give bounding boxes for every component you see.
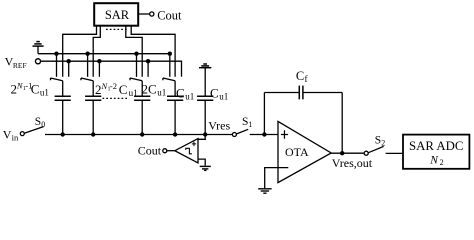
svg-text:SAR: SAR	[105, 8, 130, 22]
node bottom rail branch4	[173, 132, 177, 136]
wire pole branch3 to cap	[141, 81, 143, 96]
node Vref rail / branch1	[67, 59, 71, 63]
label Cu1 (branch5)	[210, 85, 228, 101]
svg-text:u1: u1	[157, 88, 166, 98]
node Vref rail / branch2	[97, 59, 101, 63]
wire ground throw branch2	[87, 54, 89, 77]
wire ground rail	[38, 53, 170, 55]
wire Cf left vertical	[263, 93, 265, 135]
svg-text:V: V	[3, 128, 12, 142]
wire cap branch1 to bottom rail	[62, 101, 64, 135]
node ground rail / branch1	[54, 52, 58, 56]
wire SAR control to switch 1	[63, 26, 97, 77]
capacitor 2^(N1-1)Cu1	[55, 96, 71, 100]
wire ground throw branch4	[169, 54, 171, 77]
wire pole branch4 to cap	[174, 81, 176, 96]
wire ground throw branch3	[136, 54, 138, 77]
switch branch4	[163, 78, 175, 81]
svg-text:C: C	[296, 69, 304, 83]
wire SAR to Cout terminal	[138, 13, 149, 15]
wire cap branch2 to bottom rail	[92, 101, 94, 135]
wire pole branch1 to cap	[62, 81, 64, 96]
wire Cf top right	[303, 92, 342, 94]
wire SAR control to switch 2	[93, 26, 100, 77]
SAR logic box U_SAR	[94, 3, 138, 26]
switch branch1	[51, 78, 63, 81]
wire SAR control to switch 3	[126, 26, 142, 77]
comparator (latch) triangle	[175, 139, 198, 163]
node Cf tap	[262, 132, 266, 136]
svg-text:u1: u1	[219, 91, 228, 101]
svg-text:REF: REF	[13, 61, 27, 70]
svg-text:C: C	[119, 82, 128, 97]
svg-text:in: in	[12, 133, 19, 143]
switch S1 terminal circle	[232, 133, 236, 137]
svg-text:u1: u1	[40, 88, 49, 98]
svg-text:-2: -2	[110, 81, 117, 91]
svg-text:Vres,out: Vres,out	[332, 156, 373, 170]
ground (top left)	[33, 42, 44, 47]
ellipsis dots between branch2 and branch3	[103, 97, 129, 99]
svg-text:SAR ADC: SAR ADC	[409, 139, 463, 153]
plus marker comparator	[192, 142, 196, 146]
wire branch5 ground to cap	[204, 68, 206, 96]
wire OTA minus input to ground	[265, 168, 289, 189]
Cout terminal circle	[150, 12, 154, 16]
capacitor Cf	[299, 86, 303, 100]
wire Cf top left	[264, 92, 299, 94]
switch branch3	[130, 78, 142, 81]
svg-text:Cout: Cout	[138, 144, 162, 158]
ground (branch5 top)	[199, 64, 211, 68]
Cf label	[296, 69, 308, 84]
capacitor Cu1 (branch4)	[167, 96, 183, 100]
op-amp OTA triangle	[278, 121, 331, 182]
svg-text:f: f	[305, 74, 308, 84]
node bottom rail branch1	[61, 132, 65, 136]
svg-text:C: C	[148, 82, 157, 97]
wire Vref throw branch3	[147, 61, 149, 77]
wire bottom rail Vin to S1	[45, 134, 233, 136]
node bottom rail branch3	[140, 132, 144, 136]
switch S2 terminal circle	[364, 151, 368, 155]
node ground rail / branch3	[134, 52, 138, 56]
clock symbol inside comparator	[186, 148, 192, 154]
SAR ADC box	[403, 135, 469, 169]
wire Cf right vertical	[341, 93, 343, 154]
wire ground stem to ground rail	[37, 46, 39, 54]
N2 label	[429, 154, 443, 167]
node ground rail / branch2	[85, 52, 89, 56]
node Vres	[203, 132, 207, 136]
wire comparator top input to Vres node	[198, 135, 205, 140]
svg-text:u1: u1	[185, 91, 194, 101]
wire cap branch4 to bottom rail	[174, 101, 176, 135]
node OTA output / Cf	[340, 151, 344, 155]
wire Vref throw branch2	[98, 61, 100, 77]
dotted control bus under SAR box	[106, 28, 127, 30]
svg-text:Vres: Vres	[208, 119, 230, 133]
plus marker OTA	[281, 130, 288, 139]
node Vref rail / branch3	[146, 59, 150, 63]
wire pole branch2 to cap	[92, 81, 94, 96]
wire OTA output	[331, 152, 364, 154]
switch S2 arm	[368, 146, 384, 152]
wire cap branch3 to bottom rail	[141, 101, 143, 135]
svg-text:2: 2	[440, 158, 444, 167]
svg-text:OTA: OTA	[285, 145, 309, 159]
wire SAR control to switch 4	[131, 26, 175, 77]
switch S0 arm	[24, 127, 43, 134]
V_REF terminal circle	[35, 59, 40, 64]
svg-text:C: C	[31, 82, 40, 97]
switch S0 terminal circle	[20, 132, 24, 136]
wire Vref rail	[41, 61, 182, 77]
svg-text:0: 0	[41, 120, 45, 129]
comparator output terminal circle	[163, 149, 167, 153]
svg-text:C: C	[210, 85, 219, 100]
capacitor Cu1 (branch5)	[197, 96, 213, 100]
capacitor 2Cu1	[134, 96, 150, 100]
capacitor 2^(N1-2)Cu1	[85, 96, 101, 100]
wire S2 to SAR ADC box	[386, 152, 403, 154]
wire cap branch5 to bottom rail	[204, 101, 206, 135]
svg-text:Cout: Cout	[157, 9, 182, 23]
ground (OTA)	[258, 189, 271, 193]
wire ground throw branch1	[56, 54, 58, 77]
svg-text:N: N	[429, 154, 439, 166]
switch branch2	[81, 78, 93, 81]
wire comparator output	[167, 150, 175, 152]
label Cu1 (branch4)	[176, 85, 194, 101]
wire S1 to OTA input	[250, 134, 278, 136]
wire Vref throw branch1	[68, 61, 70, 77]
svg-text:u1: u1	[129, 88, 138, 98]
label 2Cu1	[142, 82, 167, 98]
node bottom rail branch2	[91, 132, 95, 136]
node ground rail / branch4	[168, 52, 172, 56]
wire comparator bottom input to ground	[198, 159, 205, 166]
label 2^(N1-1)Cu1	[11, 80, 49, 97]
label 2^(N1-2)Cu1	[95, 81, 138, 98]
switch S1 arm	[236, 129, 248, 134]
svg-text:1: 1	[248, 120, 252, 129]
ground (comparator)	[200, 166, 211, 170]
svg-text:C: C	[176, 85, 185, 100]
